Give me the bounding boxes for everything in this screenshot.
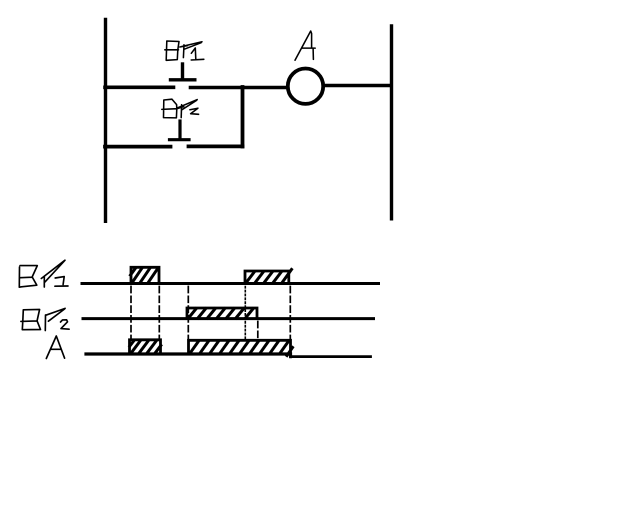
wire: BS2 to branch junction — [189, 144, 243, 148]
right power rail — [390, 26, 393, 219]
A pulse 2 outline — [189, 340, 291, 357]
timing trace A baseline — [86, 352, 291, 355]
BS1 pulse 1 hatching — [131, 269, 158, 283]
wire: BS1 to coil A — [191, 86, 288, 90]
timing label A — [46, 336, 64, 359]
label BS2 — [162, 99, 199, 118]
wire: branch junction vertical — [241, 87, 245, 147]
dashed guide t3 (BS2 pulse rise) — [187, 287, 189, 340]
timing label BS2 — [21, 308, 69, 330]
wire: coil A to right rail — [324, 84, 391, 88]
label BS1 — [165, 41, 204, 60]
timing label BS1 — [19, 260, 68, 287]
dashed guide t6 (BS1 pulse2 fall) — [289, 287, 291, 341]
dotted guide t4 (BS1 pulse2 rise) — [244, 287, 246, 340]
left power rail — [104, 19, 107, 221]
timing trace BS1 baseline — [82, 282, 379, 285]
label A (coil) — [295, 31, 315, 60]
wire: left rail to BS1 contact — [105, 86, 174, 90]
dashed guide t2 (BS1 pulse1 fall) — [158, 287, 160, 340]
BS2 pulse outline — [187, 308, 257, 319]
A pulse 2 hatching — [190, 341, 293, 355]
dashed guide t1 (BS1 pulse1 rise) — [130, 287, 132, 340]
pushbutton BS1 — [171, 64, 195, 80]
dashed guide t5 (BS2 pulse fall) — [257, 322, 259, 340]
timing trace A tail (after pulse 2) — [291, 355, 371, 358]
BS1 pulse 1 outline — [131, 267, 159, 283]
BS1 pulse 2 outline — [245, 271, 289, 284]
coil A — [288, 69, 323, 104]
A pulse 1 outline — [130, 340, 161, 354]
BS2 pulse hatching — [189, 309, 254, 318]
pushbutton BS2 — [170, 121, 190, 140]
wire: left rail to BS2 contact (parallel branch) — [105, 145, 171, 149]
BS1 pulse 2 hatching — [246, 270, 292, 283]
A pulse 1 hatching — [130, 341, 161, 353]
timing trace BS2 baseline — [83, 317, 374, 320]
